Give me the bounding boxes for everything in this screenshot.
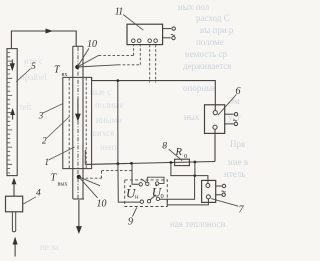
heater bottom lead stub	[84, 150, 86, 164]
svg-text:ные с: ные с	[90, 87, 111, 97]
switch arm upper	[141, 179, 146, 183]
supply box 6	[205, 105, 225, 134]
svg-text:2: 2	[42, 136, 47, 146]
pointer line 6	[218, 95, 237, 116]
svg-text:ных пол: ных пол	[178, 2, 210, 12]
svg-text:8: 8	[162, 142, 167, 152]
label Un	[126, 185, 139, 200]
detector box 7	[202, 180, 216, 202]
svg-text:нными: нными	[96, 115, 122, 125]
pointer line 8	[169, 149, 183, 160]
thermocouple lead vyx (dashed)	[81, 170, 133, 178]
label U0	[152, 185, 164, 201]
pointer line 2	[46, 117, 69, 139]
svg-text:ние в: ние в	[228, 157, 248, 167]
svg-text:telt: telt	[20, 102, 32, 112]
bottom inlet arrow	[13, 237, 18, 257]
heater bottom wire through R0	[85, 162, 215, 165]
float arrow down (inside tube)	[10, 60, 15, 72]
lead R0 left to detector box 7	[171, 163, 208, 184]
node on U0 lead	[194, 174, 197, 177]
resistor R0 box	[175, 159, 190, 165]
flow arrowhead on top wire	[46, 29, 54, 34]
svg-text:10: 10	[97, 199, 107, 210]
svg-text:5: 5	[31, 62, 36, 72]
svg-text:полные: полные	[95, 100, 124, 110]
svg-text:немость ср: немость ср	[185, 49, 228, 59]
svg-text:1: 1	[45, 157, 50, 167]
svg-text:ных: ных	[184, 112, 200, 122]
label T vx	[54, 65, 67, 79]
box 6 right output terminals	[225, 113, 238, 126]
float arrow up (inside tube)	[10, 108, 15, 120]
svg-text:9: 9	[128, 217, 133, 228]
svg-text:0: 0	[184, 153, 187, 160]
thermocouple lead vx b (solid then dashed)	[77, 45, 140, 67]
svg-text:вых: вых	[58, 182, 68, 188]
wire lower contact to detector	[160, 199, 209, 205]
lead to U0 lower contact	[167, 176, 194, 200]
svg-text:нтель: нтель	[224, 169, 245, 179]
comparison circuit dashed box 9	[125, 180, 168, 207]
box 7 right output terminals	[216, 184, 226, 196]
svg-text:3: 3	[38, 111, 44, 121]
dashed leads from box 11 to T vyx	[150, 45, 156, 83]
lead from bottom wire to Un contact	[132, 163, 139, 184]
lead R0 right down	[194, 162, 196, 176]
pointer line 7	[211, 199, 238, 207]
thermocouple node T vx (10)	[75, 65, 79, 69]
svg-text:держивается: держивается	[183, 61, 231, 71]
svg-text:поломе: поломе	[196, 37, 224, 47]
wire box 6 bottom to R0 line	[214, 129, 216, 161]
pointer line 4	[23, 197, 36, 204]
thermocouple lead vx a (solid then dashed)	[77, 45, 133, 67]
heater winding dashed wall left (2)	[68, 78, 70, 168]
lead continues to switch contact	[118, 164, 140, 202]
svg-text:Пря: Пря	[230, 139, 245, 149]
svg-text:прalbel: прalbel	[20, 72, 47, 82]
inlet arrow above pump box	[12, 178, 17, 197]
measuring lead from top wire down	[117, 81, 119, 164]
box 11 terminals	[132, 39, 158, 43]
pointer line 1	[49, 147, 75, 160]
pointer line 3	[43, 104, 63, 114]
box 6 terminals	[213, 111, 218, 130]
svg-text:расход С: расход С	[196, 13, 230, 23]
millivoltmeter box 11	[127, 24, 163, 44]
pump box 4	[6, 196, 23, 212]
paper background	[0, 0, 256, 261]
svg-text:не за: не за	[40, 242, 59, 252]
switch contacts upper row	[139, 182, 159, 186]
flow arrow down inside tube	[75, 99, 81, 122]
svg-text:шихся: шихся	[90, 128, 114, 138]
box 7 terminals	[206, 184, 211, 199]
svg-text:6: 6	[236, 86, 241, 97]
svg-text:4: 4	[36, 189, 41, 199]
inner tube 1	[73, 46, 84, 199]
pointer line 5	[16, 69, 31, 82]
rotameter tube 5	[7, 49, 17, 176]
svg-text:нент: нент	[100, 142, 118, 152]
svg-text:ная теплоноси: ная теплоноси	[170, 219, 225, 229]
rotameter scale ticks	[8, 53, 13, 173]
svg-text:0: 0	[161, 193, 164, 200]
pointer line 11	[123, 15, 143, 31]
box 11 right output terminals	[163, 27, 176, 40]
thermocouple node T vyx (10)	[77, 175, 81, 179]
svg-text:вы при р: вы при р	[200, 25, 234, 35]
junction nodes on bottom wire	[117, 162, 120, 165]
tube axis dash-dot line	[77, 47, 79, 199]
pointer line 9	[133, 207, 137, 216]
svg-text:опорные: опорные	[183, 83, 216, 93]
label R0	[175, 147, 188, 160]
svg-text:вх: вх	[62, 72, 68, 78]
heater winding dashed wall right	[85, 78, 87, 168]
switch contacts lower row	[140, 197, 159, 203]
supply pipe below box 4	[12, 212, 15, 232]
outlet arrow below tube	[76, 200, 82, 234]
pointer lines 10 bottom	[79, 177, 100, 186]
heater top wire to supply box 6	[92, 77, 216, 110]
svg-text:11: 11	[115, 6, 123, 17]
junction node on top wire	[116, 79, 119, 82]
outer jacket tube 3	[63, 77, 92, 168]
svg-text:R: R	[175, 147, 183, 158]
pointer line 10 top	[77, 48, 89, 67]
jumper upper contacts	[147, 177, 164, 183]
switch arm lower	[150, 195, 156, 200]
label T vyx	[51, 173, 68, 188]
wire: left tube top to middle tube	[11, 31, 76, 49]
